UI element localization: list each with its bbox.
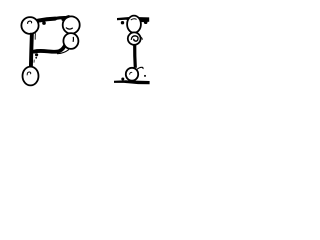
letter P bowl bottom stroke [34, 46, 65, 52]
letter P stem [31, 33, 32, 67]
letter P top-left circle inner squiggle [28, 21, 32, 24]
letter I bottom circle top-right tick [137, 67, 143, 69]
letter P stem hairline tick bottom [33, 60, 35, 63]
letter P mid-right circle inner dash [72, 37, 74, 42]
letter I bottom circle [126, 68, 138, 81]
letter P tiny dot below bowl dot [35, 57, 37, 59]
letter P mid-right circle [63, 33, 78, 49]
letter I bottom bar [114, 80, 150, 84]
letter P top-right circle inner smile [66, 28, 73, 30]
letter I top circle [127, 16, 141, 33]
letter P top-right circle junction ink blob [63, 16, 69, 19]
letter I second circle right tick [141, 37, 143, 40]
letter I bottom left dot [121, 78, 124, 81]
letter I stem [133, 44, 137, 68]
letter P dot near top bar [42, 21, 46, 25]
letter I top bar right dot [144, 20, 148, 24]
letter P top-right circle [63, 16, 80, 33]
letter P top bar [38, 19, 55, 21]
letter I second circle [128, 32, 141, 44]
letter I bottom circle inner mark [130, 72, 133, 74]
letter P bowl bottom sketch tail [58, 50, 69, 54]
letter P top-left circle [21, 17, 38, 34]
letter P bottom circle inner squiggle [27, 72, 31, 75]
letter P stem hairline tick top [34, 33, 36, 39]
background [0, 0, 150, 110]
letter I bottom right small dot [144, 75, 146, 77]
letter P top bar tail [54, 18, 66, 19]
letter I second circle inner spiral [131, 36, 138, 41]
letter I top bar left dot [121, 21, 124, 24]
letter P bottom circle [23, 67, 39, 86]
letter I top bar [117, 17, 149, 22]
letter I top circle inner arc [131, 19, 137, 20]
letter P dot near bowl [35, 53, 38, 56]
